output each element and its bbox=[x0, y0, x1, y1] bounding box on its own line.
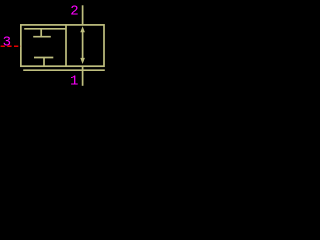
svg-text:1: 1 bbox=[70, 74, 78, 90]
svg-text:3: 3 bbox=[3, 34, 11, 50]
svg-text:2: 2 bbox=[70, 3, 78, 19]
